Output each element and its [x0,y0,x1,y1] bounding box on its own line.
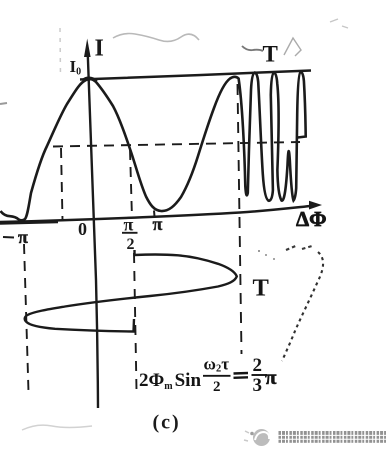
faint left-edge dash [0,103,7,104]
faint specks top right [330,19,348,28]
dashed vertical at pi/2 upper [130,150,132,218]
svg-text:π: π [18,227,28,247]
dashed horizontal half-level line [53,142,300,147]
x-axis [0,206,313,222]
svg-text:0: 0 [78,219,87,239]
dashed vertical right long [238,84,242,354]
faint pencil squiggle top [113,34,199,42]
axis tick at pi [153,211,156,218]
dashed vertical left long [24,244,29,392]
y-axis arrowhead [84,39,91,58]
dark knot at peak/axis crossing [83,78,97,81]
x-axis arrowhead [309,201,322,210]
svg-text:T: T [263,42,278,67]
top envelope line at I0 [80,71,311,80]
svg-text:ΔΦ: ΔΦ [296,207,327,231]
dashed vertical at pi/2 lower [134,253,137,390]
main fringe intensity curve [1,72,306,221]
watermark text glyph blocks [279,431,387,443]
faint vertical crease [59,28,62,78]
faint dotted arc scribble right [286,245,312,250]
faint bottom-left scribble [22,425,92,430]
faint triangle scribble top right [284,38,301,56]
equation equals [234,373,249,378]
lower S-shaped time signal curve [25,250,237,332]
svg-text:2: 2 [253,355,263,376]
label -pi [3,236,14,239]
y-axis [88,55,98,408]
svg-text:2: 2 [213,379,221,395]
dashed vertical at -pi/2 [61,148,63,220]
faint dots near dashed line [258,250,260,252]
svg-text:π: π [153,214,163,234]
svg-text:3: 3 [253,375,263,396]
x-axis extra thickness left [0,222,58,224]
watermark logo [253,429,270,446]
svg-text:I: I [95,36,104,62]
svg-text:(c): (c) [153,412,181,434]
svg-text:π: π [265,365,277,389]
svg-text:T: T [253,275,269,302]
svg-text:π: π [124,215,134,235]
darker squiggle before T [242,46,263,51]
